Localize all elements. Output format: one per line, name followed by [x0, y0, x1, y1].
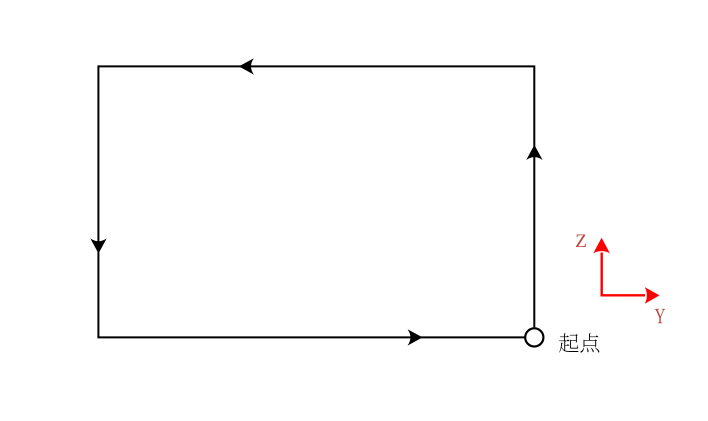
arrow up (right edge) [526, 145, 542, 160]
label 点 [580, 333, 599, 352]
wire rectangular tool path (bottom, left, top, right edges) [98, 66, 534, 337]
arrow left (top edge) [239, 58, 254, 74]
arrow right (bottom edge) [408, 329, 423, 345]
axis label Z [576, 234, 586, 247]
axis Z shaft [601, 253, 603, 297]
arrow down (left edge) [90, 238, 106, 253]
axis Z arrowhead [593, 238, 610, 253]
label 起 [559, 333, 579, 352]
axis Y shaft [601, 294, 645, 296]
axis label Y [655, 309, 665, 323]
start point circle [525, 328, 543, 346]
axis Y arrowhead [645, 287, 660, 304]
